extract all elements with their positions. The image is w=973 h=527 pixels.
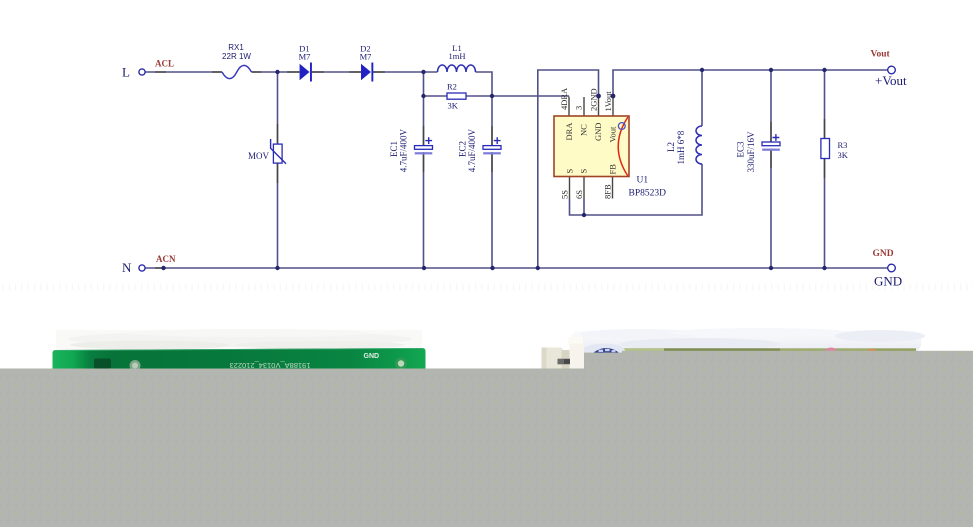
svg-text:U1: U1: [637, 175, 649, 185]
svg-text:Vout: Vout: [871, 50, 891, 60]
svg-text:S: S: [565, 169, 575, 174]
svg-text:L: L: [122, 65, 130, 80]
svg-text:1mH 6*8: 1mH 6*8: [676, 130, 686, 164]
svg-text:2GND: 2GND: [589, 88, 599, 111]
svg-text:GND: GND: [364, 353, 380, 360]
svg-text:4.7uF/400V: 4.7uF/400V: [467, 129, 477, 173]
svg-text:S: S: [579, 169, 589, 174]
svg-text:M7: M7: [299, 52, 311, 62]
svg-text:GND: GND: [593, 123, 603, 141]
svg-text:EC3: EC3: [736, 141, 746, 158]
svg-text:1mH: 1mH: [449, 51, 466, 61]
svg-text:4.7uF/400V: 4.7uF/400V: [399, 129, 409, 173]
svg-text:ACL: ACL: [155, 59, 174, 69]
svg-text:1Vout: 1Vout: [603, 91, 613, 112]
svg-text:22R 1W: 22R 1W: [222, 52, 251, 61]
svg-text:GND: GND: [874, 273, 902, 288]
svg-text:EC2: EC2: [458, 141, 468, 157]
svg-text:4DRA: 4DRA: [559, 87, 569, 110]
svg-text:6S: 6S: [574, 190, 584, 199]
svg-text:R3: R3: [838, 140, 848, 150]
svg-text:RX1: RX1: [228, 43, 244, 52]
svg-text:3K: 3K: [838, 150, 849, 160]
svg-text:Vout: Vout: [608, 126, 618, 143]
svg-text:FB: FB: [608, 164, 618, 175]
svg-text:M7: M7: [360, 52, 372, 62]
svg-text:NC: NC: [579, 124, 589, 136]
svg-text:8FB: 8FB: [603, 184, 613, 199]
svg-text:3K: 3K: [448, 100, 459, 110]
svg-text:5S: 5S: [560, 190, 570, 199]
svg-text:GND: GND: [873, 249, 894, 259]
svg-text:ACN: ACN: [156, 254, 176, 264]
svg-text:BP8523D: BP8523D: [629, 188, 667, 198]
svg-text:MOV: MOV: [248, 151, 270, 161]
svg-text:330uF/16V: 330uF/16V: [746, 131, 756, 173]
svg-text:3: 3: [574, 106, 584, 110]
svg-text:N: N: [122, 260, 132, 275]
svg-text:R2: R2: [447, 82, 457, 92]
svg-text:L2: L2: [666, 142, 676, 152]
svg-text:EC1: EC1: [389, 141, 399, 157]
svg-text:+Vout: +Vout: [875, 73, 907, 88]
svg-text:DRA: DRA: [564, 122, 574, 141]
